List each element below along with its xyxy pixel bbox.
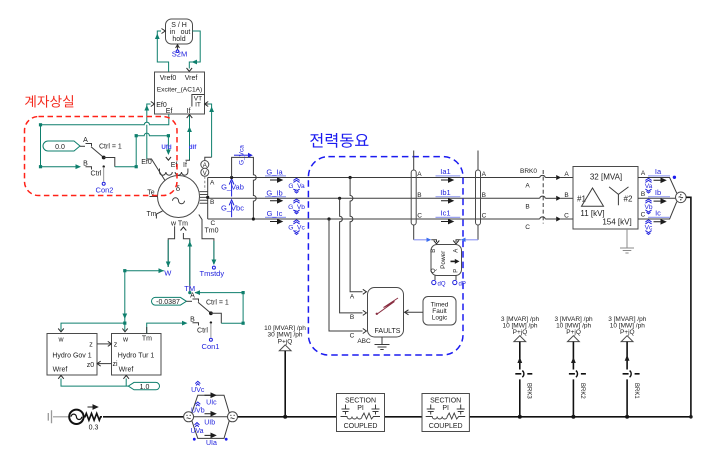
svg-text:A: A <box>641 170 646 177</box>
voltmeter UVc <box>191 381 205 394</box>
machine torque input wire from label TM <box>181 227 193 292</box>
svg-text:w: w <box>57 337 64 344</box>
wire phase B machine to transformer <box>208 196 573 201</box>
red dashed group box <box>25 117 178 196</box>
wire fault tap phase B <box>338 197 363 313</box>
svg-text:S / H: S / H <box>171 22 187 29</box>
svg-text:Ctrl = 1: Ctrl = 1 <box>206 299 229 306</box>
svg-text:Con1: Con1 <box>202 342 220 351</box>
wire machine If to exciter If <box>187 115 193 160</box>
svg-text:in: in <box>170 29 176 36</box>
ground (left of source) <box>48 410 69 423</box>
svg-text:Ib: Ib <box>655 188 661 197</box>
svg-text:A: A <box>210 180 215 187</box>
svg-text:C: C <box>211 220 216 227</box>
svg-text:B: B <box>431 249 437 253</box>
output channel dQ <box>432 276 446 288</box>
svg-text:UIc: UIc <box>206 400 217 407</box>
synchronous machine G1 <box>158 176 200 218</box>
svg-text:Wref: Wref <box>119 367 134 374</box>
svg-text:Tm0: Tm0 <box>205 228 219 235</box>
ground voltmeter Vb <box>644 199 652 214</box>
svg-text:Vref: Vref <box>185 75 198 82</box>
signal label TM <box>184 284 195 294</box>
fault block FAULTS <box>350 288 404 346</box>
svg-text:If: If <box>187 108 191 115</box>
load L1 with breaker BRK1 <box>608 316 647 419</box>
output channel dP <box>453 276 466 288</box>
svg-text:BRK2: BRK2 <box>579 383 585 399</box>
ground below FAULTS <box>375 337 390 350</box>
signal label S2M <box>172 45 187 59</box>
svg-text:SECTION: SECTION <box>430 398 461 405</box>
machine field winding coils Ef If <box>160 157 190 175</box>
load L2 with breaker BRK2 <box>555 316 594 419</box>
power meter block P Q <box>431 245 462 276</box>
wire switch common to machine field Ufd <box>135 133 171 168</box>
svg-text:0.3: 0.3 <box>89 425 99 432</box>
voltmeter UVa <box>190 423 203 436</box>
svg-text:A: A <box>350 293 355 300</box>
svg-text:Ctrl = 1: Ctrl = 1 <box>99 144 122 151</box>
svg-text:C: C <box>350 332 355 339</box>
svg-text:Hydro Gov 1: Hydro Gov 1 <box>52 353 91 360</box>
svg-text:Hydro Tur 1: Hydro Tur 1 <box>118 353 155 360</box>
machine field terminal Ef0 <box>141 159 165 181</box>
wire left lead to power meter input B <box>414 238 440 244</box>
node dots (blue) on bottom branch <box>193 438 196 441</box>
svg-text:P: P <box>453 269 459 273</box>
svg-text:Ufd: Ufd <box>161 144 172 151</box>
svg-text:UVc: UVc <box>191 387 205 394</box>
machine port Tm (left) <box>146 211 162 219</box>
svg-text:Ic: Ic <box>655 209 661 218</box>
ammeter label Ib1 <box>436 188 461 203</box>
svg-text:#1: #1 <box>577 194 586 203</box>
wire fault tap phase A <box>349 176 363 292</box>
turbine block Hydro Tur 1 <box>112 334 162 376</box>
wire machine VT IT measurement to exciter <box>205 104 214 160</box>
svg-text:Ef0: Ef0 <box>141 159 152 166</box>
svg-text:P+jQ: P+jQ <box>620 329 635 336</box>
svg-text:UVb: UVb <box>191 408 205 415</box>
wire gov z to turbine z <box>97 341 111 346</box>
ammeter label G_Ia <box>265 168 286 183</box>
svg-text:PI: PI <box>442 405 449 412</box>
svg-text:w: w <box>122 337 129 344</box>
rms meter circle <box>676 192 687 203</box>
svg-text:1.0: 1.0 <box>140 384 150 391</box>
machine port Te <box>147 190 157 197</box>
svg-text:A: A <box>190 293 195 300</box>
svg-text:P+jQ: P+jQ <box>513 329 528 336</box>
constant -0.0387 <box>151 297 186 306</box>
svg-text:UIb: UIb <box>204 420 215 427</box>
two position switch Ctrl=1 (torque) <box>190 293 229 338</box>
svg-text:A: A <box>525 183 530 190</box>
svg-text:A: A <box>564 171 569 178</box>
svg-text:Ia: Ia <box>655 167 662 176</box>
multimeter hexagon right node <box>228 412 238 422</box>
svg-text:Power: Power <box>440 250 447 269</box>
svg-text:dP: dP <box>459 282 466 288</box>
svg-text:z0: z0 <box>87 362 95 369</box>
svg-text:dIf: dIf <box>189 144 197 151</box>
svg-text:B: B <box>350 314 354 321</box>
ground voltmeter Va <box>645 178 653 193</box>
timed fault logic block <box>405 297 457 326</box>
svg-text:S2M: S2M <box>172 50 187 59</box>
svg-text:B: B <box>564 192 568 199</box>
sample-hold block S/H <box>162 19 193 44</box>
svg-text:Logic: Logic <box>432 314 448 321</box>
wire 0.0 to switch A <box>80 145 85 147</box>
svg-text:B: B <box>190 316 195 323</box>
transformer output wires to rms meter <box>638 170 677 219</box>
voltmeter UVb <box>191 402 205 415</box>
svg-text:Con2: Con2 <box>96 186 114 195</box>
ground voltmeter G_Vb <box>288 199 305 214</box>
svg-text:z: z <box>114 342 118 349</box>
svg-text:P+jQ: P+jQ <box>278 338 293 345</box>
wire machine field Ef0 to exciter Ef0 <box>144 104 150 159</box>
svg-text:154 [kV]: 154 [kV] <box>602 217 631 226</box>
svg-text:hold: hold <box>172 36 185 43</box>
blue dashed group box <box>308 157 463 355</box>
pi section block 2 <box>422 394 469 432</box>
wire W to governor and turbine speed inputs <box>58 268 164 332</box>
svg-text:B: B <box>525 204 529 211</box>
bottom bus wire <box>103 415 693 419</box>
svg-text:11 [kV]: 11 [kV] <box>580 209 604 218</box>
wire exciter Ef out, down-left to switch B <box>39 114 169 169</box>
svg-text:B: B <box>210 199 214 206</box>
svg-text:A: A <box>453 249 459 253</box>
ammeter label Ic <box>648 209 670 224</box>
transformer T1 32 MVA <box>564 167 638 230</box>
wire fault tap phase C <box>327 217 362 331</box>
svg-text:SECTION: SECTION <box>345 398 376 405</box>
svg-text:COUPLED: COUPLED <box>429 423 463 430</box>
signal label Con2 <box>96 182 114 194</box>
wire -0.0387 to switch A <box>186 300 192 302</box>
wire turbine zi to gov z0 <box>97 361 111 366</box>
constant 0.0 <box>43 141 80 151</box>
svg-text:UVa: UVa <box>190 428 203 435</box>
ammeter label G_Ib <box>265 188 286 203</box>
svg-text:zi: zi <box>112 361 118 368</box>
svg-text:G_Vbc: G_Vbc <box>221 203 244 212</box>
svg-text:C: C <box>482 213 487 220</box>
machine stator pins A B C <box>200 178 216 227</box>
svg-text:PI: PI <box>357 405 364 412</box>
ammeter label G_Ic <box>265 209 286 224</box>
svg-text:G_Vca: G_Vca <box>239 145 246 165</box>
svg-text:w Tm: w Tm <box>170 220 188 227</box>
breaker BRK0 <box>520 168 543 231</box>
pi section block 1 <box>337 394 385 432</box>
svg-text:ABC: ABC <box>357 338 371 345</box>
ac source VS <box>69 410 83 424</box>
svg-text:B: B <box>417 192 421 199</box>
svg-text:W: W <box>164 269 172 278</box>
ground voltmeter Vc <box>645 220 653 235</box>
svg-text:A: A <box>482 171 487 178</box>
ammeter voltmeter A V circles <box>201 161 209 191</box>
multimeter branch c (top) <box>192 393 230 413</box>
svg-text:FAULTS: FAULTS <box>375 328 401 335</box>
svg-text:G_Vab: G_Vab <box>221 183 244 192</box>
wire turbine Tm to switch B <box>147 321 188 334</box>
svg-text:C: C <box>641 212 646 219</box>
wire Vref0 to S/H in <box>155 31 169 72</box>
svg-text:UIa: UIa <box>206 440 217 447</box>
svg-text:0.0: 0.0 <box>55 144 65 151</box>
label 계자상실 (loss of field) <box>25 95 73 107</box>
svg-text:Q: Q <box>431 268 437 273</box>
svg-text:Tm: Tm <box>142 336 152 343</box>
svg-text:Ctrl: Ctrl <box>91 171 102 178</box>
svg-text:Ic1: Ic1 <box>440 209 450 218</box>
svg-text:BRK3: BRK3 <box>526 383 532 399</box>
ground voltmeter G_Vc <box>288 220 305 235</box>
wire phase C machine to transformer <box>208 217 573 222</box>
svg-text:Ef: Ef <box>166 108 173 115</box>
wire S/H out to Vref <box>187 31 201 71</box>
machine speed output wire to label W <box>166 226 175 267</box>
node dot (blue) <box>673 176 676 179</box>
voltmeter G_Vbc <box>221 200 244 217</box>
ammeter label Ic1 <box>436 209 461 224</box>
svg-text:G_Ic: G_Ic <box>267 209 283 218</box>
svg-text:G_Vb: G_Vb <box>288 204 305 211</box>
svg-text:IT: IT <box>195 101 201 108</box>
wire right lead to power meter input A <box>453 238 478 244</box>
three phase tap lead left (into power meter) <box>411 151 422 240</box>
svg-text:Ctrl: Ctrl <box>197 328 208 335</box>
constant 1.0 <box>128 382 159 391</box>
ammeter label Ia <box>648 167 670 182</box>
svg-text:C: C <box>417 213 422 220</box>
svg-text:32 [MVA]: 32 [MVA] <box>590 172 622 181</box>
governor block Hydro Gov 1 <box>47 334 97 376</box>
svg-text:Wref: Wref <box>53 367 68 374</box>
svg-text:C: C <box>525 224 530 231</box>
svg-text:Exciter_(AC1A): Exciter_(AC1A) <box>157 87 202 94</box>
svg-text:A: A <box>83 137 88 144</box>
svg-text:BRK1: BRK1 <box>633 383 639 399</box>
exciter U_EX Exciter_(AC1A) <box>151 72 208 115</box>
svg-text:Tm: Tm <box>146 211 156 218</box>
two position switch Ctrl=1 (field) <box>83 137 136 182</box>
svg-text:COUPLED: COUPLED <box>344 423 378 430</box>
multimeter branch a (bottom) <box>192 421 230 439</box>
multimeter branch b (middle) <box>194 412 228 417</box>
multimeter hexagon left node <box>184 412 194 422</box>
svg-text:If: If <box>183 162 187 169</box>
ammeter label Ia1 <box>436 167 461 182</box>
svg-text:G_Vc: G_Vc <box>288 225 305 232</box>
svg-text:#2: #2 <box>624 194 633 203</box>
svg-text:G_Ib: G_Ib <box>266 188 282 197</box>
ammeter label Ib <box>648 188 670 203</box>
svg-text:V: V <box>203 171 207 177</box>
svg-text:B: B <box>83 160 88 167</box>
svg-text:B: B <box>482 192 486 199</box>
voltmeter G_Vca with taps <box>230 145 256 221</box>
svg-text:Ia1: Ia1 <box>440 167 450 176</box>
load L3 with breaker BRK3 <box>501 316 540 419</box>
wire 1.0 to Wref inputs <box>58 375 129 386</box>
svg-text:P+jQ: P+jQ <box>566 329 581 336</box>
svg-text:A: A <box>417 171 422 178</box>
wire switch output to TM <box>195 290 245 325</box>
svg-text:dQ: dQ <box>438 282 446 288</box>
label 전력동요 (power oscillation) <box>310 133 368 148</box>
svg-text:Vref0: Vref0 <box>160 75 177 82</box>
svg-text:-0.0387: -0.0387 <box>156 299 180 306</box>
wire phase A machine to transformer <box>208 175 573 180</box>
svg-text:BRK0: BRK0 <box>520 168 537 175</box>
svg-text:out: out <box>181 29 191 36</box>
wire rms meter down to bus <box>686 197 691 416</box>
ground voltmeter G_Va <box>288 178 305 193</box>
svg-text:G_Va: G_Va <box>288 183 305 190</box>
svg-text:Ib1: Ib1 <box>440 188 450 197</box>
machine port Tm0 wire to label Tmstdy <box>199 215 219 270</box>
ground below transformer <box>620 229 634 253</box>
svg-text:z: z <box>89 342 93 349</box>
voltmeter G_Vab <box>221 179 244 197</box>
svg-text:Tmstdy: Tmstdy <box>200 269 225 278</box>
svg-text:C: C <box>564 213 569 220</box>
svg-text:G_Ia: G_Ia <box>266 168 283 177</box>
svg-text:B: B <box>641 191 645 198</box>
resistor 0.3 <box>84 405 102 432</box>
load 30MW fixed <box>264 325 306 419</box>
signal label Con1 <box>202 338 220 351</box>
three phase tap lead right <box>476 151 487 240</box>
